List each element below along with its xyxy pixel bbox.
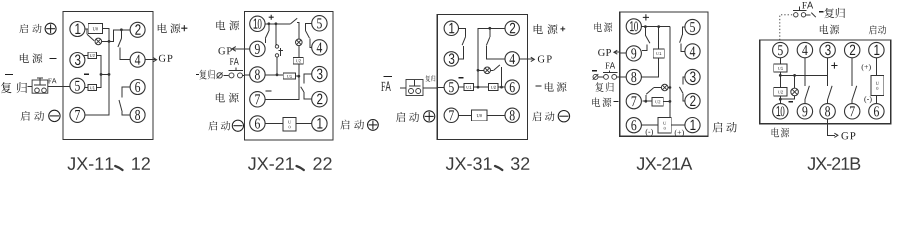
- minus: [592, 70, 597, 72]
- terminal 2: [312, 92, 327, 107]
- contact 2-7: [851, 58, 853, 86]
- terminal 8: [626, 69, 641, 84]
- terminal 5: [312, 16, 327, 31]
- terminal 8: [820, 104, 835, 119]
- terminal 4: [312, 40, 327, 55]
- terminal 3: [444, 52, 458, 66]
- label −复归 reset pushbutton: [196, 73, 199, 75]
- label 电源+: [534, 24, 543, 34]
- title JX-21、22: [248, 157, 294, 170]
- relay case outline JX-31: [437, 15, 527, 140]
- terminal 7: [845, 104, 860, 119]
- coil U1: [265, 74, 283, 76]
- plus mark: [643, 14, 649, 20]
- terminal 5: [444, 80, 458, 94]
- label 电源 bottom: [772, 128, 779, 138]
- terminal 1: [70, 22, 85, 37]
- terminal 3: [685, 69, 700, 84]
- terminal 9: [626, 46, 641, 61]
- minus near terminal 7: [266, 90, 272, 92]
- terminal 8: [505, 108, 519, 122]
- title JX-21B: [807, 157, 860, 170]
- lamp branch: [478, 69, 484, 71]
- terminal 3: [312, 66, 327, 81]
- contact 4-9: [804, 58, 806, 86]
- terminal 7: [626, 94, 641, 109]
- column 5: U1, U2: [779, 58, 781, 64]
- label 电源 row7: [216, 93, 225, 103]
- contact 2-4: [489, 28, 491, 37]
- column 1: U0: [875, 58, 877, 76]
- contact 3-8, plus label: [827, 58, 829, 86]
- terminal 5: [773, 42, 788, 57]
- terminal 3: [70, 53, 85, 68]
- wire reset button to terminal 5: [27, 85, 32, 87]
- coil U1: [85, 87, 88, 89]
- coil U0 bottom: [641, 124, 658, 126]
- coil U0 between 6 and 1: [265, 123, 283, 125]
- title JX-11、12: [67, 157, 113, 170]
- label FA with minus above: [383, 76, 392, 78]
- terminal 6: [505, 80, 519, 94]
- label -复归: [819, 11, 824, 13]
- title JX-21A: [637, 157, 693, 170]
- plus bus: [780, 74, 827, 76]
- main vertical: [669, 27, 671, 118]
- terminal 5: [70, 78, 85, 93]
- terminal 1: [444, 21, 458, 35]
- pushbutton FA: [48, 78, 51, 83]
- wire U2/U1 common: [97, 55, 102, 87]
- label GP: [159, 55, 166, 62]
- label 启动⊖: [532, 111, 541, 121]
- label FA: [230, 58, 234, 65]
- bus from 10: [641, 26, 670, 28]
- label -电源: [535, 85, 541, 87]
- reset pushbutton FA top: [794, 13, 798, 17]
- label GP with arrow to terminal 9: [218, 47, 225, 54]
- lamp column: [794, 75, 796, 88]
- relay case outline JX-21: [245, 12, 334, 140]
- terminal 1: [312, 116, 327, 131]
- contact 10-9: [268, 24, 270, 31]
- terminal 4: [797, 42, 812, 57]
- lamp with contact: [661, 84, 668, 91]
- label 启动⊖ (start minus): [21, 111, 30, 121]
- GP output from 8: [828, 119, 835, 135]
- terminal 7: [70, 107, 85, 122]
- terminal 10: [250, 16, 265, 31]
- terminal 6: [250, 116, 265, 131]
- signal lamp with contact: [86, 29, 88, 34]
- terminal 2: [845, 42, 860, 57]
- minus above 5: [459, 77, 464, 79]
- labels (+) and (-): [862, 64, 864, 71]
- terminal 2: [130, 22, 145, 37]
- label −复归 (reset): [5, 73, 13, 75]
- terminal 9: [797, 104, 812, 119]
- power rail from terminal 2: [478, 28, 505, 87]
- coil U0: [85, 28, 88, 30]
- node on wire to terminal 2: [120, 28, 123, 31]
- terminal 4: [505, 52, 519, 66]
- title JX-31、32: [446, 157, 492, 170]
- terminal 7: [444, 108, 458, 122]
- terminal 6: [869, 104, 884, 119]
- minus near 10: [788, 101, 793, 103]
- contact 2-4: [120, 30, 122, 39]
- lamp column: [265, 22, 299, 99]
- label 电源- (power minus): [20, 53, 29, 63]
- label GP to terminal 9: [598, 49, 605, 56]
- label 启动⊕ right: [340, 120, 349, 130]
- contact 3-2: [304, 74, 312, 83]
- terminal 4: [685, 44, 700, 59]
- contact 6-8: [122, 87, 130, 98]
- label 电源 top: [820, 24, 828, 33]
- contact 5-4: [305, 23, 311, 30]
- coil U1: [658, 27, 660, 49]
- label 电源+: [158, 23, 167, 33]
- GP output wire: [519, 58, 533, 60]
- reset pushbutton: [593, 74, 598, 79]
- reset pushbutton left: [400, 87, 406, 89]
- contact 5-4: [682, 27, 685, 35]
- label FA: [605, 63, 609, 69]
- coil U0 row 7-8: [459, 114, 472, 116]
- labels (-) and (+): [646, 129, 648, 136]
- terminal 7: [250, 92, 265, 107]
- contact 1-3: [459, 28, 466, 36]
- terminal 2: [505, 21, 519, 35]
- coil U2 row 7: [642, 100, 652, 102]
- label 电源 row10: [216, 20, 225, 30]
- label 电源 top: [594, 22, 601, 31]
- coils U1 U2 row: [459, 86, 465, 88]
- label 复归 small: [425, 75, 430, 81]
- label 复归: [595, 82, 603, 92]
- dotted reset wire: [780, 15, 793, 40]
- terminal 1: [869, 42, 884, 57]
- terminal 1: [685, 118, 700, 133]
- terminal 5: [685, 19, 700, 34]
- terminal 3: [820, 42, 835, 57]
- label 启动 top right: [869, 25, 877, 34]
- wire U0 to terminal 7: [85, 29, 109, 115]
- label 启动⊕ (start plus): [19, 24, 28, 33]
- terminal 10: [773, 104, 788, 119]
- terminal 8: [130, 107, 145, 122]
- terminal 4: [130, 52, 145, 67]
- label 启动⊖: [208, 121, 217, 131]
- GP output wire with arrow: [145, 59, 156, 61]
- minus above terminal 5: [84, 73, 89, 75]
- terminal 6: [130, 80, 145, 95]
- connection link: [276, 24, 277, 45]
- relay case outline JX-11: [63, 12, 153, 140]
- plus mark: [269, 15, 274, 20]
- coil U2: [83, 54, 88, 56]
- terminal 9: [250, 41, 265, 56]
- relay case outline JX-21A: [620, 12, 708, 136]
- terminal 6: [626, 118, 641, 133]
- terminal 10: [626, 19, 641, 34]
- label 启动⊕: [396, 112, 405, 122]
- terminal 2: [685, 93, 700, 108]
- terminal 8: [250, 67, 265, 82]
- label 电源-: [592, 98, 600, 107]
- bus wire from terminal 10: [265, 23, 291, 25]
- contact blade top: [291, 18, 298, 24]
- contact 3-2: [683, 77, 685, 85]
- label 启动 right: [713, 122, 723, 132]
- relay case outline JX-21B: [760, 40, 891, 124]
- contact 10-9: [644, 27, 646, 36]
